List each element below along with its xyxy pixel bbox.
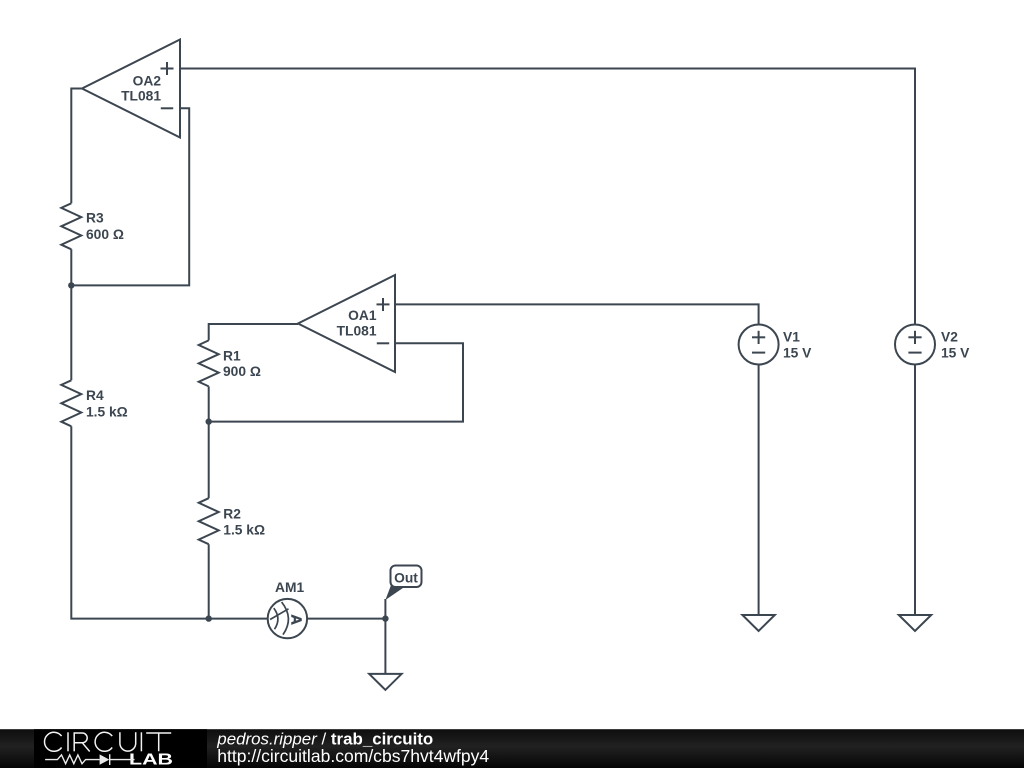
svg-text:AM1: AM1: [275, 580, 304, 595]
label Out: [394, 571, 418, 586]
label R1 value: [223, 349, 261, 379]
svg-text:TL081: TL081: [121, 89, 161, 104]
svg-text:V2: V2: [941, 330, 958, 345]
svg-text:R2: R2: [223, 507, 241, 522]
wire: OA2 + output top net to V2: [180, 69, 915, 326]
logo CIRCUIT wordmark: [45, 732, 172, 751]
logo block background: [34, 729, 207, 768]
svg-text:900 Ω: 900 Ω: [223, 364, 261, 379]
svg-text:http://circuitlab.com/cbs7hvt4: http://circuitlab.com/cbs7hvt4wfpy4: [217, 746, 489, 766]
wire: R1 top to OA1 output apex: [209, 324, 298, 340]
wire: OA1 + input to V1 top: [395, 304, 759, 324]
svg-text:R3: R3: [86, 211, 104, 226]
logo LAB wordmark: [129, 752, 173, 768]
svg-text:1.5 kΩ: 1.5 kΩ: [223, 523, 265, 538]
flag Out: [385, 566, 421, 601]
resistor R2: [199, 498, 219, 544]
svg-text:OA2: OA2: [133, 74, 162, 89]
label V2 value: [941, 330, 970, 361]
footer bar: [0, 729, 1024, 768]
wire: out node up to flag pointer: [384, 599, 386, 619]
svg-text:600 Ω: 600 Ω: [86, 227, 124, 242]
svg-text:15 V: 15 V: [783, 345, 812, 360]
label A inside ammeter: [288, 614, 304, 625]
svg-text:1.5 kΩ: 1.5 kΩ: [86, 404, 128, 419]
ground: out node: [369, 674, 401, 690]
wire: V2 bottom to ground: [914, 365, 916, 616]
label OA2: [121, 74, 161, 104]
svg-text:TL081: TL081: [337, 324, 377, 339]
voltage source V1: [739, 325, 779, 365]
svg-text:A: A: [288, 614, 304, 625]
wire: R4 bottom to bottom rail to AM1 left: [71, 426, 267, 618]
label V1 value: [783, 330, 812, 361]
label OA1: [337, 308, 377, 339]
label R2 value: [223, 507, 265, 538]
svg-text:OA1: OA1: [348, 308, 377, 323]
wire: V1 bottom to ground: [758, 365, 760, 616]
node: R1/R2/feedback junction: [206, 418, 212, 424]
wire: R2 bottom to bottom rail node: [208, 544, 210, 618]
svg-text:R1: R1: [223, 349, 241, 364]
op-amp OA2: [82, 40, 180, 138]
resistor R3: [61, 203, 81, 249]
wire: AM1 right to out node: [307, 618, 385, 620]
node: R3/R4/OA2- junction: [68, 282, 74, 288]
wire: R1 bottom to mid node: [208, 386, 210, 421]
resistor R1: [199, 340, 219, 386]
wire: OA1 - input feedback loop: [209, 343, 463, 421]
wire: out node down to ground: [384, 619, 386, 674]
label R4 value: [86, 388, 128, 419]
footer: author / title: [216, 729, 433, 748]
ground: V2: [899, 615, 931, 631]
wire: R3 bottom through node to R4 top: [70, 249, 72, 380]
label R3 value: [86, 211, 124, 243]
logo resistor-diode squiggle: [45, 754, 134, 765]
resistor R4: [61, 380, 81, 426]
label AM1: [275, 580, 304, 595]
wire: OA2 - input feedback down-left: [71, 108, 189, 285]
wire: R2 top to mid node: [208, 422, 210, 499]
node: out junction: [382, 615, 388, 621]
node: R2/bottom rail junction: [206, 615, 212, 621]
op-amp OA1: [298, 275, 395, 372]
voltage source V2: [895, 325, 935, 365]
wire: OA2 output to R3 top: [71, 89, 82, 204]
ammeter AM1: [268, 599, 307, 638]
svg-text:Out: Out: [394, 571, 418, 586]
footer: url: [217, 746, 489, 766]
svg-text:V1: V1: [783, 330, 800, 345]
svg-text:15 V: 15 V: [941, 345, 970, 360]
ground: V1: [742, 615, 774, 631]
svg-text:R4: R4: [86, 388, 104, 403]
svg-text:LAB: LAB: [129, 752, 173, 768]
